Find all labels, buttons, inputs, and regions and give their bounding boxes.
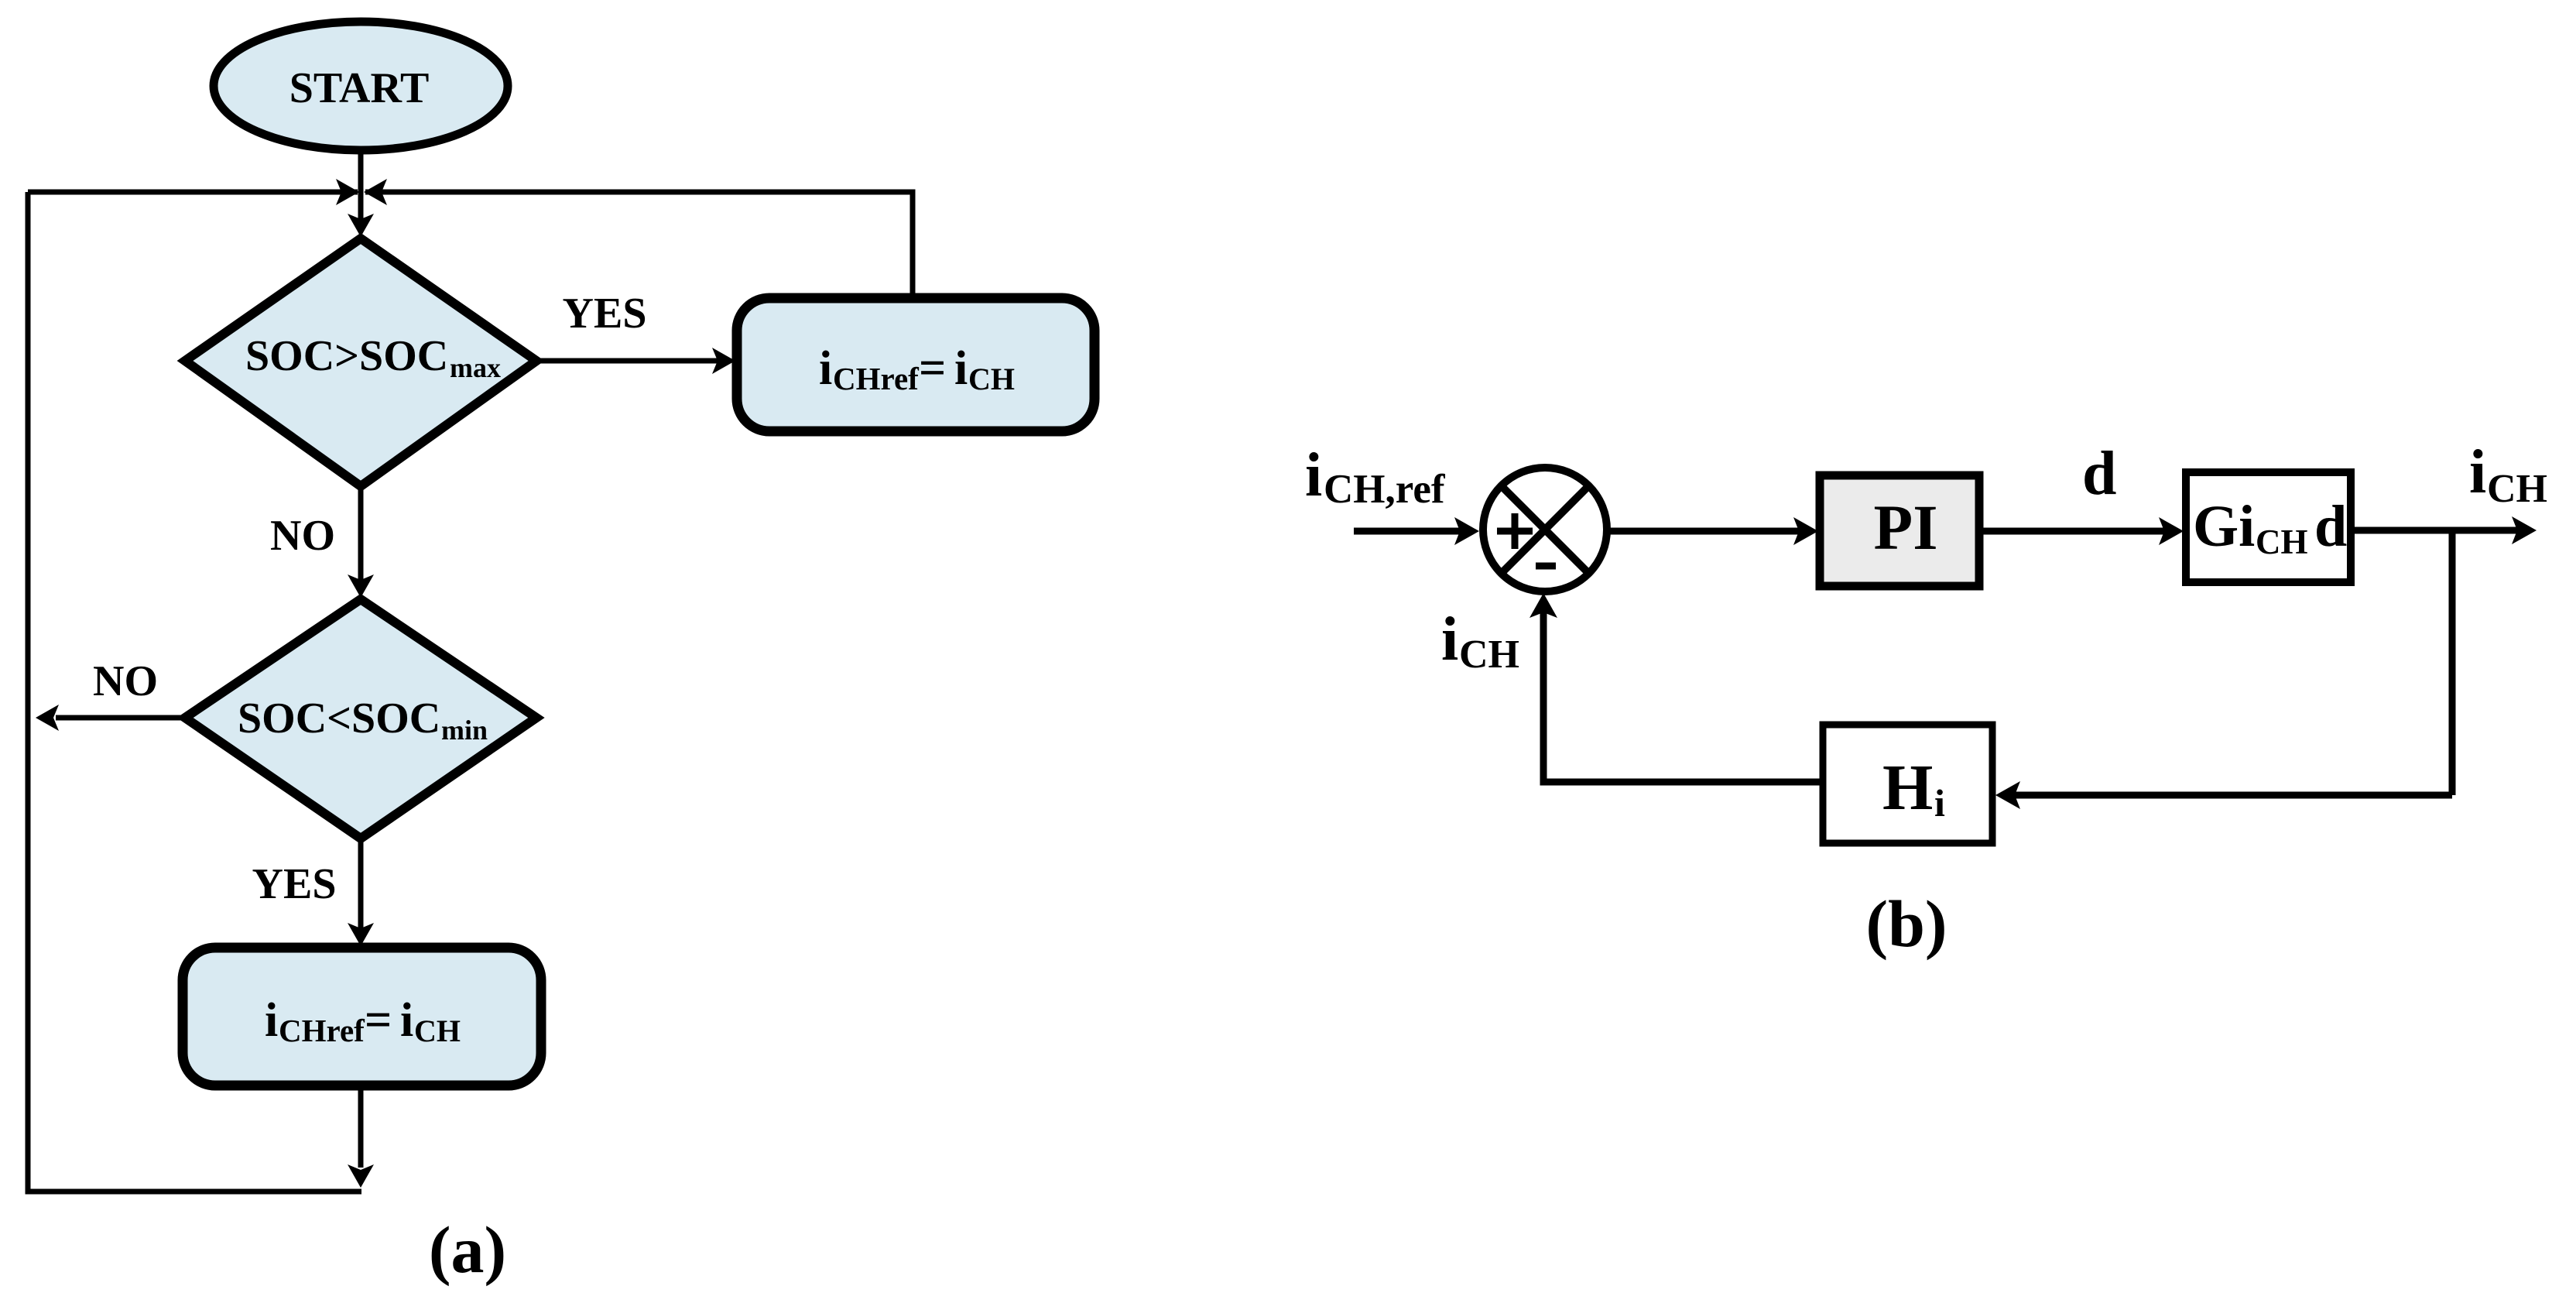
svg-text:d: d — [2082, 440, 2117, 508]
svg-text:CH: CH — [414, 1013, 461, 1048]
svg-text:=: = — [919, 342, 946, 395]
svg-text:i: i — [2469, 438, 2486, 506]
arrowhead into box1 — [712, 348, 735, 374]
svg-text:i: i — [400, 994, 413, 1047]
block GiCHd — [2186, 472, 2351, 582]
wire: diamond1 YES to box1 — [536, 358, 731, 364]
svg-text:min: min — [441, 715, 488, 746]
svg-text:NO: NO — [93, 657, 158, 705]
wire: summing junction to PI — [1607, 528, 1804, 535]
svg-text:SOC<SOC: SOC<SOC — [238, 694, 440, 742]
minus sign — [1536, 563, 1556, 570]
svg-text:CH: CH — [1459, 633, 1519, 677]
svg-text:i: i — [1305, 441, 1322, 509]
decision diamond2 SOC<SOCmin — [185, 599, 536, 838]
wire: feedback into Hi right side — [2009, 792, 2452, 799]
svg-text:YES: YES — [563, 290, 647, 338]
svg-text:CHref: CHref — [833, 361, 920, 396]
svg-text:=: = — [365, 994, 392, 1047]
svg-text:d: d — [2314, 494, 2347, 559]
svg-text:PI: PI — [1874, 492, 1938, 563]
svg-text:CHref: CHref — [279, 1013, 365, 1048]
wire: START down through junction to diamond1 — [358, 150, 364, 232]
wire: diamond1 bottom to diamond2 — [358, 486, 364, 593]
arrowhead into GiCHd — [2159, 517, 2184, 545]
decision diamond1 SOC>SOCmax — [185, 238, 536, 486]
svg-text:i: i — [1934, 781, 1945, 825]
arrowhead output iCH — [2512, 516, 2537, 544]
wire: diamond2 NO to left loop — [56, 715, 185, 721]
block Hi — [1823, 725, 1992, 843]
svg-text:NO: NO — [270, 512, 335, 560]
arrowhead down into diamond2 — [348, 574, 374, 598]
wire: top-left horizontal into junction — [28, 190, 358, 195]
plus sign — [1497, 528, 1533, 535]
arrowhead down at loop return — [348, 1164, 374, 1188]
label iCHref = iCH in box2 — [265, 994, 461, 1048]
label GiCHd — [2193, 494, 2347, 561]
svg-text:Gi: Gi — [2193, 494, 2255, 559]
svg-text:(a): (a) — [429, 1212, 506, 1287]
arrowhead into PI — [1793, 517, 1818, 545]
svg-text:i: i — [954, 342, 968, 395]
process box2 iCHref=iCH — [183, 948, 541, 1085]
wire: Hi output left then up to summing junction — [1543, 612, 1823, 782]
svg-text:YES: YES — [252, 860, 337, 908]
wire: GiCHd output with branch — [2351, 527, 2517, 534]
svg-text:i: i — [265, 994, 278, 1047]
svg-text:(b): (b) — [1865, 886, 1947, 961]
svg-text:SOC>SOC: SOC>SOC — [245, 332, 448, 380]
svg-text:CH: CH — [2487, 467, 2547, 511]
arrowhead left into loop line — [36, 705, 59, 731]
start ellipse — [214, 22, 508, 150]
svg-text:START: START — [289, 64, 430, 112]
arrowhead up into summing junction — [1529, 593, 1557, 618]
summing junction circle — [1483, 468, 1607, 592]
wire: box2 bottom to loop — [358, 1085, 364, 1168]
process box1 iCHref=iCH — [737, 298, 1094, 431]
arrowhead left-pointing at top junction — [364, 179, 387, 205]
svg-text:CH,ref: CH,ref — [1324, 467, 1446, 512]
svg-text:i: i — [819, 342, 832, 395]
wire: top-right horizontal from box1 riser into junction — [365, 192, 913, 298]
wire: branch down from output — [2449, 530, 2456, 795]
svg-text:CH: CH — [968, 362, 1015, 396]
arrowhead down into box2 — [348, 923, 374, 946]
arrowhead into Hi — [1995, 781, 2020, 809]
svg-text:CH: CH — [2256, 523, 2308, 561]
arrowhead down into diamond1 — [348, 214, 374, 237]
wire: input arrow into summing junction — [1354, 528, 1463, 535]
arrowhead right-pointing at top junction — [336, 179, 359, 205]
svg-text:max: max — [450, 352, 501, 383]
wire: left loop vertical line — [28, 192, 361, 1192]
block PI — [1820, 475, 1979, 586]
label iCHref = iCH in box1 — [819, 342, 1015, 396]
svg-text:i: i — [1441, 605, 1458, 674]
wire: diamond2 bottom to box2 — [358, 838, 364, 941]
svg-text:H: H — [1882, 752, 1933, 824]
wire: PI to GiCHd block — [1979, 528, 2167, 535]
summing junction X diagonals — [1501, 485, 1588, 573]
arrowhead into summing junction — [1454, 517, 1479, 545]
